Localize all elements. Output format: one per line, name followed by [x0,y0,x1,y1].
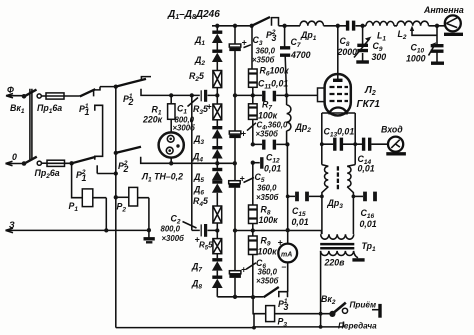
node diode column row2 [215,159,219,166]
capacitor C8 2000 [337,21,358,57]
relay contact P1-2 [69,157,118,183]
svg-text:×350б: ×350б [256,193,279,202]
ground transformer primary [352,251,364,260]
fuse Пр1 6а [37,93,80,115]
diode D1 [194,26,223,47]
relay contact P3-1 [264,287,289,312]
svg-text:100к: 100к [258,247,278,257]
svg-text:×350б: ×350б [252,56,275,65]
relay contact P1-1 [79,87,103,160]
svg-text:220к: 220к [142,115,163,125]
capacitor C13 0,01 [320,127,357,151]
resistor R1 220k [142,93,192,132]
wire P1-1 to P2 line [100,84,118,88]
svg-text:4700: 4700 [290,50,311,60]
switch Вк2 [321,294,380,331]
diode D8 [191,271,223,291]
svg-text:100к: 100к [258,111,278,121]
svg-text:0,01: 0,01 [358,164,375,174]
terminal 0 input [6,152,24,166]
relay coil P3 [253,297,330,328]
tube U Л2 ГК71 [325,74,381,116]
capacitor C6 360,0 x350в electrolytic [229,258,278,286]
svg-text:100к: 100к [259,215,279,225]
svg-text:+: + [241,265,246,275]
svg-text:220в: 220в [324,258,346,268]
inductor L1 [366,21,394,42]
node R column row3 [251,228,255,232]
input jack Вход [381,125,406,154]
antenna socket [423,5,464,34]
wire row1 link rail to R column [233,93,253,97]
node diode column row3 [215,228,219,232]
svg-text:0: 0 [12,152,17,162]
svg-text:300: 300 [372,52,387,62]
wire resistor chain rail top [251,26,253,69]
svg-text:×350б: ×350б [256,277,279,286]
capacitor coupling row 144 [251,140,290,150]
capacitor C14 0,01 [355,138,388,174]
relay contact P2-1 [115,77,167,107]
resistor R9 100k [249,231,278,298]
capacitor C11 0,01 [253,79,289,102]
switch P3-2 [252,17,279,43]
inductor Dr2 [287,95,312,230]
resistor R7 100k [249,95,278,143]
svg-text:360,0: 360,0 [256,47,276,56]
capacitor C9 300 variable [354,26,386,62]
capacitor C5 360,0 x350в electrolytic [229,172,279,202]
svg-text:Приём: Приём [350,301,377,310]
svg-text:360,0: 360,0 [258,268,278,277]
terminal Ф input [6,85,25,115]
wire right ground bus [233,228,322,234]
svg-text:×300б: ×300б [162,234,185,243]
inductor Dr3 bifilar choke [322,165,355,234]
tube U Л1 ТН-0,2 [141,132,184,183]
svg-text:360,0: 360,0 [257,184,277,193]
wire diode column to bottom bus [216,288,218,297]
capacitor C7 4700 [280,26,311,96]
resistor R4 5 [193,193,222,229]
node grid row [284,93,288,97]
wire filament box [322,113,355,165]
inductor Dr1 [300,21,324,42]
wire hot line vertical [115,87,117,328]
fuse Пр2 6а [35,160,72,180]
diode D5 [193,163,223,184]
svg-text:×350б: ×350б [256,130,279,139]
relay coil P2 [114,187,149,230]
wire HV filter rail [234,26,236,297]
relay contact P2-2 [114,147,167,174]
diode D6 [193,182,223,197]
node top rail junctions [215,24,439,28]
svg-text:Вход: Вход [381,125,403,135]
switch Вк1 pole2 [22,157,42,166]
wire anode lead [337,26,339,79]
svg-text:+: + [278,238,283,248]
node diode column row1 [215,93,219,97]
diode D2 [194,43,223,67]
svg-text:+: + [195,235,200,245]
capacitor C16 0,01 [352,192,377,229]
wire top HV rail [212,25,445,27]
capacitor C2 800,0 x300в [161,214,218,245]
ground symbol chassis [144,230,155,242]
svg-text:0,01: 0,01 [360,219,377,229]
svg-text:2000: 2000 [337,47,358,57]
capacitor C3 360,0 x350в electrolytic [229,35,275,65]
diode D7 [191,260,223,274]
svg-text:тА: тА [281,252,292,259]
resistor R3 5 [193,95,222,126]
svg-text:ГК71: ГК71 [357,99,381,110]
meter mA [278,230,298,292]
resistor R6 100k [249,66,290,94]
svg-text:0,01: 0,01 [292,217,309,227]
terminal З ground bus [6,220,152,233]
svg-text:–: – [282,262,287,272]
diode D4 [192,139,223,164]
resistor R2 5 [189,62,222,94]
capacitor C12 0,01 stub [251,153,282,174]
svg-text:800,0: 800,0 [161,225,181,234]
svg-text:+: + [241,129,246,139]
diode D3 [193,128,223,146]
wire grid lead with bracket [287,88,325,102]
svg-text:1000: 1000 [406,54,426,64]
capacitor C15 0,01 [286,192,324,227]
svg-text:0,01: 0,01 [264,164,281,174]
inductor L2 variable [397,21,437,41]
resistor R5 5 [199,231,222,259]
resistor R8 100k [249,163,279,229]
capacitor C4 360,0 x350в electrolytic [229,121,288,139]
svg-text:Антенна: Антенна [423,5,464,15]
relay coil P1 [69,163,107,230]
wire bottom bus left [116,327,254,329]
capacitor C1 800,0 x300в [173,90,218,133]
wire bottom rectifier bus [217,295,263,300]
capacitor C10 1000 [406,26,444,64]
transformer Tr1 [320,234,376,327]
wire bottom bus to Передача contact [252,312,343,330]
switch Вк1 pole1 [22,90,42,99]
node R column row1 [251,93,255,97]
wire heater row y163 [167,161,237,165]
wire minus line vertical [192,95,200,230]
svg-text:+: + [207,102,212,112]
mechanical link Вк1 [30,89,32,160]
